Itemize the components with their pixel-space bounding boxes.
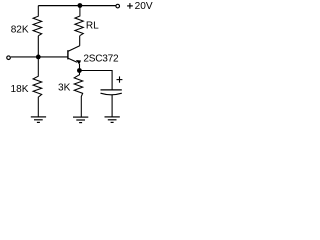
svg-text:2SC372: 2SC372 [83, 54, 119, 65]
label +20V plus sign [127, 3, 133, 9]
capacitor C1 plate top [101, 89, 122, 91]
svg-text:3K: 3K [58, 82, 71, 93]
wire capacitor to ground [111, 95, 113, 117]
svg-text:18K: 18K [11, 84, 29, 95]
wire 82K to base node [37, 36, 39, 57]
resistor 18K [33, 57, 42, 117]
terminal +20V [116, 4, 120, 8]
ground middle [73, 117, 88, 123]
label + polarity [117, 76, 123, 82]
wire top rail [38, 5, 115, 7]
wire input to base [11, 56, 68, 58]
svg-text:20V: 20V [135, 1, 153, 12]
capacitor C1 plate bottom [101, 93, 122, 95]
node emitter junction [77, 68, 82, 73]
svg-text:RL: RL [86, 20, 99, 31]
resistor 82K [33, 6, 42, 36]
node base junction [36, 55, 41, 60]
wire emitter to capacitor [79, 71, 112, 90]
resistor 3K [74, 71, 83, 117]
resistor RL [75, 6, 83, 36]
terminal input [7, 56, 11, 60]
ground left [31, 117, 46, 123]
node collector rail junction [78, 3, 83, 8]
transistor Q1 2SC372 [68, 46, 81, 71]
svg-text:82K: 82K [11, 25, 29, 36]
ground right [105, 117, 120, 123]
wire RL to collector [79, 36, 81, 46]
